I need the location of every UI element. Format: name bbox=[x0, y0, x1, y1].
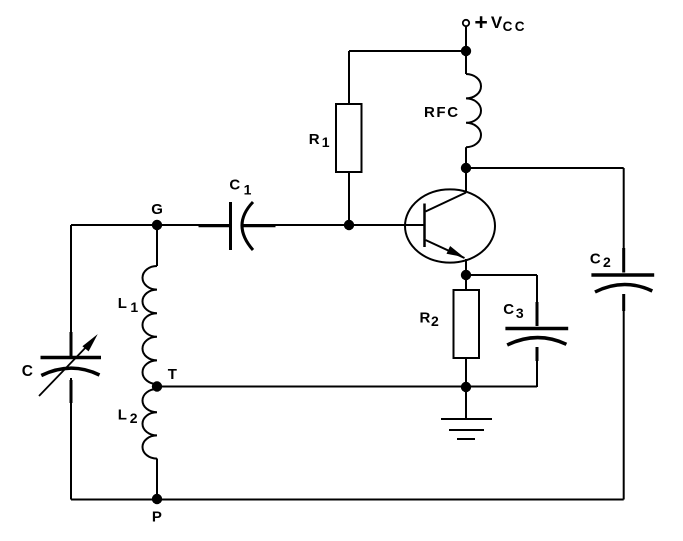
svg-text:C: C bbox=[22, 363, 33, 380]
svg-text:1: 1 bbox=[130, 299, 138, 315]
svg-text:L: L bbox=[118, 406, 127, 423]
svg-text:L: L bbox=[118, 295, 127, 312]
svg-text:C: C bbox=[590, 250, 601, 267]
svg-text:2: 2 bbox=[431, 313, 439, 329]
svg-text:1: 1 bbox=[322, 134, 330, 150]
svg-text:R: R bbox=[309, 131, 320, 148]
svg-text:RFC: RFC bbox=[424, 104, 460, 121]
svg-text:G: G bbox=[151, 201, 163, 218]
svg-text:P: P bbox=[152, 509, 162, 526]
svg-text:V: V bbox=[491, 13, 503, 32]
svg-text:3: 3 bbox=[516, 305, 524, 321]
svg-text:CC: CC bbox=[503, 19, 527, 34]
svg-text:+: + bbox=[474, 9, 487, 35]
svg-text:C: C bbox=[229, 177, 240, 194]
svg-text:1: 1 bbox=[244, 181, 252, 197]
svg-text:C: C bbox=[503, 301, 514, 318]
svg-text:T: T bbox=[168, 366, 177, 383]
svg-text:R: R bbox=[419, 309, 430, 326]
svg-text:2: 2 bbox=[603, 254, 611, 270]
svg-text:2: 2 bbox=[130, 410, 138, 426]
